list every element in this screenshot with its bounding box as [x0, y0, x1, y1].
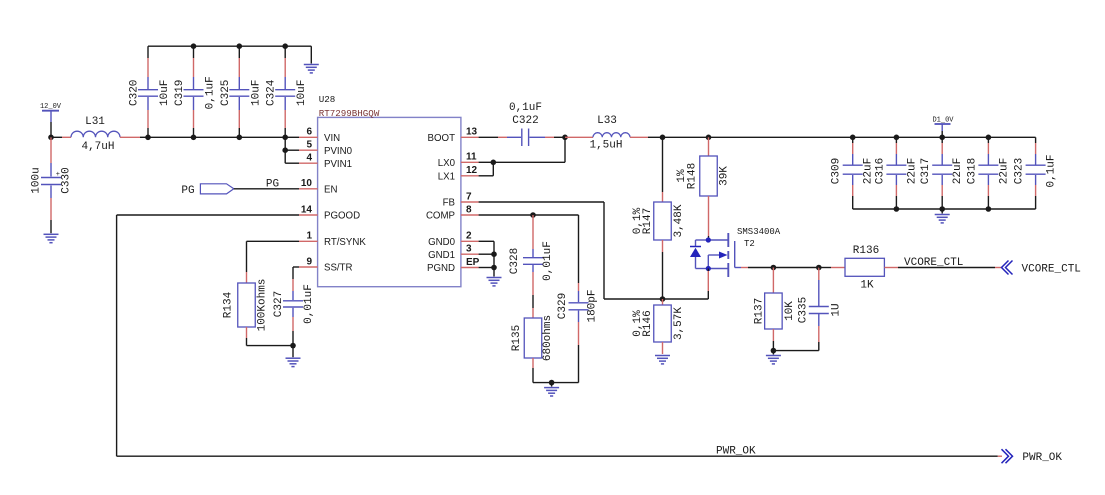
svg-text:C325: C325	[220, 80, 232, 106]
svg-text:R134: R134	[222, 291, 234, 318]
svg-text:39K: 39K	[719, 166, 731, 186]
wire gate node to C335	[773, 267, 818, 269]
wire VIN PVIN feed	[285, 137, 299, 163]
svg-text:PGND: PGND	[427, 263, 455, 274]
node PGND junction	[491, 265, 497, 271]
svg-text:0,1uF: 0,1uF	[205, 76, 217, 109]
ground below C330	[44, 234, 59, 242]
wire LX0 LX1 tie	[479, 137, 565, 176]
svg-text:GND1: GND1	[428, 250, 455, 261]
capacitor C325	[220, 46, 262, 137]
resistor R135	[511, 308, 554, 383]
svg-text:R148: R148	[686, 163, 698, 189]
node bottom rail C318	[986, 206, 992, 212]
wire main input rail	[148, 136, 285, 138]
svg-text:VCORE_CTL: VCORE_CTL	[904, 257, 963, 269]
svg-text:C335: C335	[797, 297, 809, 323]
pin 9 SS/TR	[299, 256, 353, 273]
node top rail C316	[894, 135, 900, 141]
node bottom rail C317	[939, 206, 945, 212]
svg-text:3: 3	[466, 244, 472, 255]
svg-text:U28: U28	[319, 94, 336, 105]
svg-text:180pF: 180pF	[586, 289, 598, 322]
pin 8 COMP	[426, 204, 479, 221]
svg-text:C317: C317	[920, 158, 932, 184]
svg-text:2: 2	[466, 231, 472, 242]
inductor L31	[71, 116, 120, 153]
svg-text:3,57K: 3,57K	[673, 307, 685, 340]
wire PGOOD PWR_OK run	[117, 215, 1002, 456]
ground compensation network	[544, 388, 559, 396]
svg-text:PG: PG	[266, 178, 279, 190]
wire RT/SYNK to R134	[247, 241, 300, 283]
svg-text:L33: L33	[597, 115, 617, 127]
svg-text:PVIN0: PVIN0	[324, 146, 353, 157]
power net 12_0V	[40, 103, 62, 137]
svg-text:1K: 1K	[860, 280, 874, 292]
pin 7 FB	[443, 191, 479, 208]
port PG pointer	[181, 184, 233, 197]
pin 1 RT/SYNK	[299, 231, 366, 248]
wire T2 gate to control node	[741, 267, 748, 269]
svg-text:LX0: LX0	[438, 158, 456, 169]
svg-text:PWR_OK: PWR_OK	[716, 446, 756, 458]
ground below R137	[766, 356, 781, 364]
pin 14 PGOOD	[299, 204, 360, 221]
svg-text:22uF: 22uF	[906, 158, 918, 184]
capacitor C316	[874, 137, 918, 209]
svg-text:VCORE_CTL: VCORE_CTL	[1022, 264, 1081, 276]
wire GND0 GND1 PGND tie	[479, 241, 494, 276]
svg-text:EN: EN	[324, 184, 337, 195]
capacitor C324	[266, 46, 309, 137]
wire COMP run	[479, 215, 579, 283]
node top rail junction C319	[191, 43, 197, 49]
op-amp U28 RT7299BHGQW regulator body	[318, 94, 461, 287]
wire R137 C335 bottom tie	[773, 350, 818, 352]
resistor R136	[845, 245, 884, 292]
wire R146 to ground	[662, 342, 664, 354]
ground output cap bank	[935, 215, 950, 223]
svg-text:PG: PG	[181, 185, 194, 197]
capacitor C320	[129, 58, 172, 137]
wire gate node to R136	[819, 267, 831, 269]
svg-text:PVIN1: PVIN1	[324, 159, 352, 170]
svg-text:100u: 100u	[31, 167, 43, 193]
wire 12V to L31	[51, 136, 62, 138]
capacitor C330	[31, 137, 73, 233]
capacitor C318	[966, 137, 1010, 209]
node 12V input junction	[48, 135, 54, 141]
pin EP PGND	[427, 257, 480, 274]
wire top cap bank rail	[148, 45, 311, 47]
svg-text:PGOOD: PGOOD	[324, 211, 360, 222]
svg-text:10uF: 10uF	[296, 80, 308, 106]
pin 4 PVIN1	[299, 153, 352, 170]
capacitor C317	[920, 137, 964, 209]
svg-text:R147: R147	[642, 208, 654, 234]
svg-text:GND0: GND0	[428, 237, 456, 248]
svg-text:C324: C324	[266, 79, 278, 106]
port VCORE_CTL chevron	[1002, 261, 1013, 275]
wire L33 to VOUT node	[630, 136, 648, 138]
node bottom rail junction C325	[237, 135, 243, 141]
svg-text:0,1uF: 0,1uF	[1046, 154, 1058, 187]
pin 11 LX0	[438, 152, 479, 169]
pin 13 BOOT	[428, 127, 479, 144]
capacitor C323	[1014, 137, 1058, 209]
svg-text:22uF: 22uF	[863, 158, 875, 184]
svg-text:C322: C322	[512, 115, 538, 127]
svg-text:10K: 10K	[784, 301, 796, 321]
wire R136 to VCORE_CTL port	[884, 267, 1001, 269]
svg-text:22uF: 22uF	[998, 158, 1010, 184]
node top rail C317	[939, 135, 945, 141]
node VOUT at R147	[660, 135, 666, 141]
wire R148 to T2 drain	[708, 196, 710, 236]
capacitor C319	[174, 46, 217, 137]
svg-text:5: 5	[306, 140, 312, 151]
svg-text:C320: C320	[129, 80, 141, 106]
node GND1 junction	[491, 251, 497, 257]
node top rail C309	[850, 135, 856, 141]
svg-text:R146: R146	[642, 310, 654, 336]
node top rail junction C324	[282, 43, 288, 49]
ground IC EP	[487, 278, 502, 286]
pin 2 GND0	[428, 231, 479, 248]
wire output cap bank bottom rail	[853, 208, 1036, 210]
node compensation ground junction	[549, 380, 555, 386]
svg-text:R136: R136	[853, 245, 879, 257]
power net D1_0V	[932, 116, 954, 137]
svg-text:7: 7	[466, 191, 472, 202]
wire R134 bottom	[247, 327, 294, 346]
node VOUT at R148	[706, 135, 712, 141]
node top rail C318	[986, 135, 992, 141]
wire PG to EN	[234, 188, 299, 190]
svg-text:R135: R135	[511, 325, 523, 351]
node bottom rail junction C320	[145, 135, 151, 141]
svg-text:LX1: LX1	[438, 171, 455, 182]
node top rail junction C325	[237, 43, 243, 49]
wire R147 to FB node	[662, 240, 664, 252]
svg-text:BOOT: BOOT	[428, 133, 456, 144]
svg-text:1,5uH: 1,5uH	[589, 140, 622, 152]
inductor L33	[589, 115, 630, 152]
node bottom rail C316	[894, 206, 900, 212]
ground output bank stub	[941, 209, 943, 214]
wire SS/TR to C327	[293, 267, 299, 291]
wire C322 to LX node	[545, 136, 554, 138]
svg-text:8: 8	[466, 204, 472, 215]
svg-text:C329: C329	[557, 293, 569, 319]
node R137 ground junction	[771, 348, 777, 354]
svg-text:100Kohms: 100Kohms	[257, 279, 269, 332]
svg-text:6: 6	[306, 127, 312, 138]
port PWR_OK chevron	[1002, 449, 1013, 463]
svg-text:10uF: 10uF	[159, 80, 171, 106]
svg-text:0,01uF: 0,01uF	[303, 284, 315, 324]
svg-text:C328: C328	[509, 248, 521, 274]
svg-text:C318: C318	[966, 158, 978, 184]
svg-text:SMS3400A: SMS3400A	[737, 227, 781, 237]
pin 5 PVIN0	[299, 140, 353, 157]
node COMP C328 junction	[530, 212, 536, 218]
capacitor C335	[797, 268, 842, 351]
wire T2 source to FB node	[707, 269, 709, 272]
svg-text:680ohms: 680ohms	[542, 315, 554, 361]
svg-text:0,01uF: 0,01uF	[542, 241, 554, 281]
svg-text:C330: C330	[61, 167, 73, 193]
node LX junction	[491, 160, 497, 166]
pin 10 EN	[299, 178, 337, 195]
capacitor C309	[831, 137, 875, 209]
svg-text:L31: L31	[85, 116, 105, 128]
node FB divider junction	[660, 296, 666, 302]
svg-text:4,7uH: 4,7uH	[81, 141, 114, 153]
node R134 C327 junction	[290, 343, 296, 349]
svg-text:RT7299BHGQW: RT7299BHGQW	[319, 108, 380, 119]
svg-text:C327: C327	[273, 291, 285, 317]
wire R135 C329 bottom tie	[533, 382, 579, 384]
node bottom rail junction C319	[191, 135, 197, 141]
svg-text:11: 11	[466, 152, 477, 163]
svg-text:C309: C309	[831, 158, 843, 184]
svg-text:13: 13	[466, 127, 478, 138]
wire VOUT to R148	[708, 137, 710, 156]
svg-text:RT/SYNK: RT/SYNK	[324, 237, 366, 248]
node PVIN0 junction	[282, 147, 288, 153]
ground top cap bank	[304, 65, 319, 73]
node gate R137 junction	[771, 265, 777, 271]
pin 3 GND1	[428, 244, 479, 261]
node gate C335 junction	[816, 265, 822, 271]
svg-text:1U: 1U	[831, 303, 843, 316]
capacitor C328	[509, 215, 554, 308]
svg-text:10: 10	[301, 178, 313, 189]
svg-text:VIN: VIN	[324, 133, 340, 144]
wire L31 to cap bank	[120, 136, 140, 138]
svg-text:12: 12	[466, 165, 478, 176]
svg-text:SS/TR: SS/TR	[324, 263, 353, 274]
svg-text:PWR_OK: PWR_OK	[1022, 452, 1062, 464]
svg-text:+: +	[56, 171, 60, 179]
wire BOOT to C322	[479, 136, 498, 138]
capacitor C322	[507, 102, 545, 146]
wire FB run	[479, 202, 709, 299]
svg-text:4: 4	[306, 153, 312, 164]
svg-text:COMP: COMP	[426, 211, 455, 222]
svg-text:C319: C319	[174, 80, 186, 106]
wire VOUT to R147	[662, 137, 664, 192]
svg-text:3,48K: 3,48K	[673, 204, 685, 237]
node BOOT-LX junction	[562, 135, 568, 141]
svg-text:10uF: 10uF	[250, 80, 262, 106]
svg-text:C316: C316	[874, 158, 886, 184]
resistor R147	[632, 202, 685, 240]
capacitor C327	[273, 284, 315, 345]
wire output cap bank top rail	[853, 136, 1036, 138]
svg-text:22uF: 22uF	[952, 158, 964, 184]
capacitor C329	[557, 283, 598, 383]
svg-text:EP: EP	[466, 257, 480, 268]
svg-text:14: 14	[301, 204, 313, 215]
resistor R146	[632, 299, 685, 342]
wire BOOT node to L33	[565, 136, 593, 138]
svg-text:FB: FB	[443, 198, 455, 209]
svg-text:R137: R137	[754, 298, 766, 324]
resistor R137	[754, 268, 796, 351]
node bottom rail junction C324	[282, 135, 288, 141]
ground below C327	[286, 358, 301, 366]
wire VOUT rail	[663, 136, 853, 138]
svg-text:T2: T2	[744, 239, 755, 249]
svg-text:1: 1	[306, 231, 312, 242]
transistor T2 SMS3400A	[690, 227, 781, 277]
ground below R146	[655, 356, 670, 364]
svg-text:C323: C323	[1014, 158, 1026, 184]
svg-text:9: 9	[306, 256, 312, 267]
pin 6 VIN	[299, 127, 340, 144]
resistor R148	[676, 156, 731, 196]
pin 12 LX1	[438, 165, 479, 182]
svg-text:0,1uF: 0,1uF	[509, 102, 542, 114]
resistor R134	[222, 279, 268, 332]
